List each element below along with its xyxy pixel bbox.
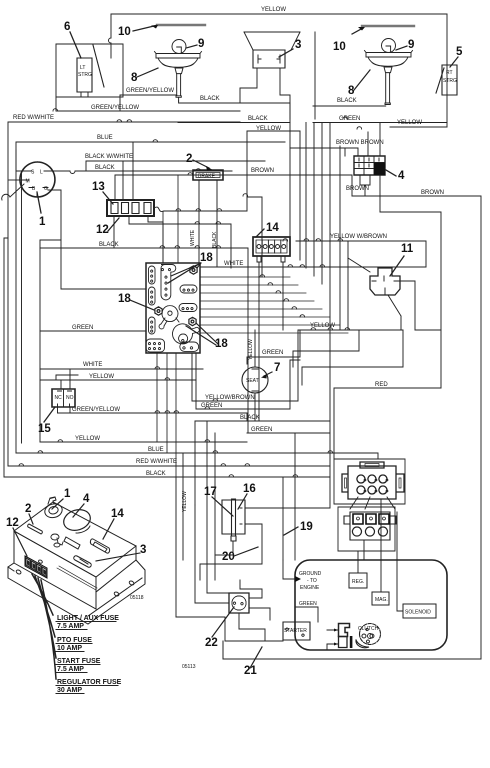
leader 12 console <box>13 528 27 556</box>
connector 4 body <box>354 156 385 175</box>
engine outline <box>295 560 447 650</box>
conn19A inner tabs <box>345 464 402 489</box>
svg-text:GREEN: GREEN <box>251 427 272 433</box>
brake switch body (2) <box>193 170 223 180</box>
svg-text:7: 7 <box>274 362 280 374</box>
svg-text:GREEN: GREEN <box>72 325 93 331</box>
svg-text:START FUSE: START FUSE <box>57 658 101 665</box>
ignition switch circle (1) <box>20 162 55 197</box>
conn19B lead <box>363 540 365 560</box>
brake pin wires <box>199 180 217 267</box>
wire hops a <box>205 440 234 477</box>
svg-text:5: 5 <box>456 46 463 58</box>
svg-text:18: 18 <box>118 293 131 305</box>
console knob 4 <box>64 510 91 531</box>
headlight bar right (10) <box>362 25 414 27</box>
wire 22 right <box>240 580 270 620</box>
console knob 4 top <box>76 526 90 533</box>
wire yellow zigzag a <box>293 330 359 367</box>
fuse block body (12) <box>107 200 154 216</box>
vertical bus e x322 <box>321 123 323 285</box>
conn19A pins r1 <box>357 475 387 483</box>
wire drop from yellow to left lamp box <box>109 14 112 58</box>
svg-text:GREEN: GREEN <box>339 116 360 122</box>
console top face edge line <box>57 566 97 590</box>
svg-text:REGULATOR FUSE: REGULATOR FUSE <box>57 679 122 686</box>
conn19B pins r2 <box>352 527 387 536</box>
connector 4 filled cells <box>374 163 385 176</box>
connector 14 inner <box>256 240 287 253</box>
wire brown right bus <box>352 196 481 659</box>
panel bottom verticals <box>157 353 176 477</box>
wire black bus2 <box>80 170 232 172</box>
wire yellow lower <box>40 379 196 381</box>
svg-text:2: 2 <box>25 503 31 515</box>
svg-text:BROWN: BROWN <box>346 186 369 192</box>
console rocker 3 <box>74 556 91 567</box>
svg-text:BLACK: BLACK <box>240 415 260 421</box>
wire green seat box <box>247 330 300 364</box>
ground wire <box>283 560 295 579</box>
vertical bus g x340 <box>339 146 341 330</box>
clutch hub <box>366 628 373 638</box>
leader 13 <box>103 192 113 204</box>
leader 8 right <box>354 70 370 90</box>
leader 12 <box>108 218 119 231</box>
bracket pins <box>334 629 338 646</box>
switch LT STRG body (6) <box>77 58 92 92</box>
leader 3 console <box>96 553 140 561</box>
lever of RT STRG <box>436 68 444 93</box>
svg-text:YELLOW/BROWN: YELLOW/BROWN <box>205 395 255 401</box>
svg-text:REG.: REG. <box>352 579 364 585</box>
panel right wires <box>200 277 348 333</box>
svg-text:30 AMP: 30 AMP <box>57 687 82 694</box>
conn19B pins dark <box>353 514 389 524</box>
headlamp right dish (8) <box>365 51 413 105</box>
wire hops h <box>160 246 333 477</box>
wire yellow zigzag b <box>302 330 403 385</box>
fuse label pto underline1 <box>56 643 92 645</box>
relay 15 ticks <box>58 391 72 406</box>
solenoid box <box>403 604 436 618</box>
hex stud 18 bottom <box>189 317 196 325</box>
meter box 3 outline <box>244 32 300 50</box>
connector 14 pin circles <box>257 245 286 249</box>
fuse label pto underline2 <box>56 651 84 653</box>
switch 16 pins <box>240 508 242 524</box>
vertical bus b x298 <box>299 131 301 260</box>
leader 7 <box>264 372 272 376</box>
wire 16 right top <box>245 477 330 508</box>
arrowhead 10 right <box>358 27 365 31</box>
leader 16 <box>238 494 247 509</box>
starter box <box>283 622 310 640</box>
fuse wire up a <box>123 142 133 200</box>
leader 8 left <box>137 68 158 77</box>
console flange holes <box>16 560 134 596</box>
wire panel feed a <box>61 248 146 289</box>
leader 18 bottom <box>186 323 218 345</box>
svg-text:NO: NO <box>66 395 74 401</box>
svg-text:19: 19 <box>300 521 313 533</box>
switch RT STRG body (5) <box>442 65 457 95</box>
svg-text:GROUND: GROUND <box>299 571 322 577</box>
wire yellow bus low <box>40 441 247 443</box>
wire hops e <box>260 275 305 317</box>
svg-text:15: 15 <box>38 423 51 435</box>
svg-text:1: 1 <box>64 488 71 500</box>
wire yellow bus mid <box>164 131 300 277</box>
svg-text:8: 8 <box>348 85 355 97</box>
svg-text:STARTER: STARTER <box>284 628 307 634</box>
clutch crescent <box>356 640 369 648</box>
LT STRG pins <box>81 92 88 97</box>
svg-text:10 AMP: 10 AMP <box>57 645 82 652</box>
wire clutch bottom <box>326 644 328 649</box>
svg-text:YELLOW: YELLOW <box>75 436 100 442</box>
svg-text:RED W/WHITE: RED W/WHITE <box>13 115 54 121</box>
fuse wire down a <box>114 207 231 268</box>
ignition terminal ticks <box>24 171 49 188</box>
svg-text:14: 14 <box>111 508 124 520</box>
wire 21 to starter <box>176 617 283 641</box>
svg-text:PTO FUSE: PTO FUSE <box>57 637 92 644</box>
ignition wire B down <box>36 192 38 196</box>
relay 15 bottom loop <box>58 407 71 413</box>
svg-text:GREEN: GREEN <box>201 403 222 409</box>
conn19A leads <box>350 497 395 509</box>
conn19B pin dots <box>356 517 385 520</box>
svg-text:05113: 05113 <box>182 664 196 670</box>
leader 9 left <box>186 45 197 48</box>
clutch bracket upper <box>339 624 350 637</box>
svg-text:12: 12 <box>96 224 109 236</box>
wire white lower <box>40 368 203 370</box>
wire green right <box>313 122 447 124</box>
wire black from left lamp <box>179 101 290 103</box>
fuse holder 22 body <box>229 593 249 613</box>
svg-text:9: 9 <box>408 39 414 51</box>
wire black left low <box>40 248 248 442</box>
panel pad L-shape <box>161 265 176 300</box>
conn19A body <box>342 462 404 499</box>
svg-text:BLACK: BLACK <box>337 98 357 104</box>
wire yellow/brown small <box>192 330 298 401</box>
wire red <box>334 388 441 459</box>
wire brown mid <box>115 175 352 200</box>
svg-text:ENGINE: ENGINE <box>300 585 320 591</box>
wire blue bus <box>16 142 285 453</box>
wire hops g <box>155 367 218 413</box>
svg-text:WHITE: WHITE <box>190 229 196 246</box>
fuse label light/aux underline1 <box>56 621 116 623</box>
wire solenoid top <box>397 512 403 611</box>
svg-text:4: 4 <box>398 170 405 182</box>
panel outline <box>146 263 200 353</box>
console 14 rect <box>90 539 109 553</box>
wire black bus mid <box>178 122 290 124</box>
vertical from meter top right <box>314 32 316 119</box>
wire green/yellow to lamp stem <box>120 94 177 96</box>
engine bottom loop <box>223 641 481 659</box>
console top face <box>14 502 136 577</box>
svg-text:WHITE: WHITE <box>224 261 243 267</box>
wire black w/white bus <box>86 161 265 171</box>
svg-text:WHITE: WHITE <box>83 362 102 368</box>
ignition wire left M <box>9 179 24 181</box>
switch 16 body <box>222 500 245 534</box>
wire green/yellow lower <box>70 413 247 421</box>
headlamp left bulb (9) <box>172 40 186 54</box>
relay 15 wires top <box>56 369 78 389</box>
vertical drop d x207 <box>206 437 208 593</box>
ignition diag lower left <box>2 184 24 200</box>
wire brown to conn4 <box>351 175 353 196</box>
svg-text:M: M <box>26 179 30 185</box>
relay 15 body <box>52 389 75 407</box>
panel pad strip B <box>149 287 156 305</box>
svg-text:22: 22 <box>205 637 218 649</box>
wire hops b <box>300 117 362 330</box>
mag box <box>372 592 389 605</box>
fuse slot 3 <box>132 203 139 214</box>
connector 14 feet <box>257 256 285 262</box>
leader line 6 <box>70 32 81 58</box>
svg-text:18: 18 <box>200 252 213 264</box>
switch SEAT circle (7) <box>242 367 268 393</box>
svg-text:3: 3 <box>140 544 146 556</box>
fuse slot 1 <box>111 203 118 214</box>
clutch bracket bar <box>350 636 353 648</box>
wire yellow right <box>390 126 447 128</box>
leader 14 top <box>256 229 264 237</box>
svg-text:BLUE: BLUE <box>97 135 113 141</box>
vertical drop e x215 <box>214 466 216 580</box>
wire mag top <box>380 500 382 592</box>
arrowhead 2 <box>206 166 212 171</box>
svg-text:GREEN/YELLOW: GREEN/YELLOW <box>126 88 174 94</box>
vertical drop b x183 <box>182 453 184 560</box>
svg-text:RED: RED <box>375 382 388 388</box>
svg-text:18: 18 <box>215 338 228 350</box>
svg-text:05118: 05118 <box>130 595 144 601</box>
meter 3 inner marks <box>258 55 280 63</box>
leader 4 <box>386 170 396 176</box>
meter 3 right pin wire <box>280 68 290 119</box>
vertical drop f x283 <box>282 477 284 560</box>
svg-text:BROWN: BROWN <box>251 168 274 174</box>
wire into panel left c <box>21 171 23 443</box>
headlight bar left (10) <box>157 24 205 26</box>
wire hops d <box>188 169 288 241</box>
arrowhead 7 <box>261 374 267 379</box>
svg-text:BLACK: BLACK <box>200 96 220 102</box>
wire yellow top bus <box>111 13 447 15</box>
svg-text:12: 12 <box>6 517 19 529</box>
svg-text:10: 10 <box>333 41 346 53</box>
hex stud 18 top <box>190 266 197 274</box>
wire green lower mid <box>247 432 330 434</box>
svg-text:GREEN: GREEN <box>299 601 317 607</box>
svg-text:YELLOW: YELLOW <box>248 339 254 360</box>
wire black lower mid <box>195 420 330 422</box>
console fuse dark <box>27 560 46 575</box>
leader 1 console <box>52 499 63 509</box>
svg-text:STRG: STRG <box>78 72 92 78</box>
svg-text:SOLENOID: SOLENOID <box>405 610 431 616</box>
svg-text:YELLOW: YELLOW <box>261 7 286 13</box>
vertical bus a x290 <box>289 103 291 252</box>
reg box <box>349 573 367 588</box>
headlamp right bulb (9) <box>382 39 396 53</box>
wire into panel left b <box>40 240 61 248</box>
wire brown conn4 down right <box>380 212 441 388</box>
wire into panel left a <box>4 238 8 477</box>
svg-text:8: 8 <box>131 72 138 84</box>
svg-text:14: 14 <box>266 222 279 234</box>
wire black low <box>4 476 330 478</box>
wire hops c <box>19 120 158 466</box>
fuse label start underline2 <box>56 672 87 674</box>
clutch bracket lower <box>339 637 348 648</box>
leader 18 top <box>168 263 201 283</box>
svg-text:NC: NC <box>55 395 63 401</box>
wire 16 right bottom <box>200 524 262 580</box>
seat ticks <box>252 369 258 391</box>
vertical cluster above panel <box>163 175 178 263</box>
leader 10 right <box>352 28 363 34</box>
console rocker 2 <box>28 524 43 534</box>
wire 22 left <box>195 505 229 603</box>
leader 1 <box>37 192 41 213</box>
green engine wire <box>295 607 318 622</box>
wire green/yellow bus <box>56 95 240 111</box>
svg-text:G: G <box>44 186 48 192</box>
wire hops i <box>53 109 222 224</box>
vertical bus c x306 <box>305 123 307 269</box>
bracket wires <box>327 630 339 644</box>
wire green small <box>196 353 300 409</box>
console base flange <box>8 560 145 624</box>
svg-text:STRG: STRG <box>443 78 457 84</box>
panel pad strip E <box>179 304 197 312</box>
vertical bus d x314 <box>313 123 315 277</box>
svg-text:L: L <box>40 170 43 176</box>
leader 4 console <box>73 504 84 517</box>
connector 14 foot wires <box>259 262 283 421</box>
svg-text:6: 6 <box>64 21 70 33</box>
conn19A pin dots <box>364 479 388 492</box>
vertical drop g x295 <box>294 433 296 560</box>
switch 17 strip <box>231 499 236 541</box>
arrowhead 10 left <box>151 25 158 29</box>
ignition wire G down <box>48 190 61 248</box>
seat wire bottom <box>254 393 256 421</box>
wire blue bus low <box>16 453 378 459</box>
console hole sq <box>64 537 80 549</box>
console small knob <box>51 534 63 547</box>
svg-text:GREEN/YELLOW: GREEN/YELLOW <box>91 105 139 111</box>
svg-text:YELLOW: YELLOW <box>89 374 114 380</box>
wire yellow right mid <box>298 329 441 331</box>
meter 3 left pin wire <box>240 68 257 103</box>
plug 11 body <box>370 268 400 295</box>
leader 14 console <box>103 519 114 539</box>
svg-text:MAG.: MAG. <box>375 597 388 603</box>
leader 22 <box>212 607 234 637</box>
wire green panel left <box>40 330 146 332</box>
leader 5 <box>450 57 458 67</box>
connector 14 body <box>253 237 290 256</box>
leader 21 <box>250 647 262 668</box>
svg-text:10: 10 <box>118 26 131 38</box>
svg-text:17: 17 <box>204 486 217 498</box>
vertical drop a x176 <box>175 477 177 617</box>
ground arrow <box>295 576 301 582</box>
starter pins <box>286 628 304 636</box>
leader 19 <box>284 527 298 535</box>
panel bottom pad F <box>180 342 199 351</box>
wire black right lamp <box>313 105 386 107</box>
svg-text:BRAKE: BRAKE <box>198 174 216 180</box>
wire red w/white bus <box>8 122 240 466</box>
leader 18 left <box>130 300 154 310</box>
connector 14 dividers <box>262 240 281 253</box>
svg-text:7.5 AMP: 7.5 AMP <box>57 666 84 673</box>
svg-text:RED W/WHITE: RED W/WHITE <box>136 459 177 465</box>
fuse label regulator underline1 <box>56 685 118 687</box>
svg-text:BROWN BROWN: BROWN BROWN <box>336 140 384 146</box>
svg-text:3: 3 <box>295 39 301 51</box>
panel arc pad <box>173 324 200 344</box>
panel pad strip C <box>149 317 156 334</box>
relay 15 divider <box>63 389 65 407</box>
svg-text:LIGHT / AUX FUSE: LIGHT / AUX FUSE <box>57 615 119 622</box>
svg-text:13: 13 <box>92 181 105 193</box>
svg-text:LT: LT <box>80 65 85 71</box>
wire 22 bottom <box>239 613 265 641</box>
clutch gear <box>360 624 381 645</box>
svg-text:BROWN: BROWN <box>421 190 444 196</box>
brake inner <box>196 173 220 178</box>
svg-text:SEAT: SEAT <box>246 378 259 384</box>
svg-text:BLACK W/WHITE: BLACK W/WHITE <box>85 154 133 160</box>
vertical drop c x195 <box>194 421 196 505</box>
conn19 upper box path <box>334 459 405 504</box>
wire yellow w/brown <box>296 241 426 267</box>
panel pad strip A <box>149 266 156 284</box>
conn19 lower box path <box>338 507 395 551</box>
console right face <box>96 546 136 592</box>
leader 15 <box>44 407 55 422</box>
svg-text:4: 4 <box>83 493 90 505</box>
vertical drop a2 x207 upper <box>206 421 208 437</box>
svg-text:BLACK: BLACK <box>95 165 115 171</box>
meter box 3 body <box>253 50 285 68</box>
svg-text:7.5 AMP: 7.5 AMP <box>57 623 84 630</box>
leader 2 <box>193 160 209 168</box>
leader 2 console <box>29 514 33 524</box>
svg-text:11: 11 <box>401 243 414 255</box>
console front face <box>14 531 96 609</box>
leader 9 right <box>396 46 407 50</box>
svg-text:YELLOW: YELLOW <box>182 491 188 512</box>
fuse slot 4 <box>144 203 151 214</box>
hex stud 18 left <box>155 307 162 315</box>
leader 10 left <box>133 26 156 32</box>
leader 20 <box>234 547 258 556</box>
